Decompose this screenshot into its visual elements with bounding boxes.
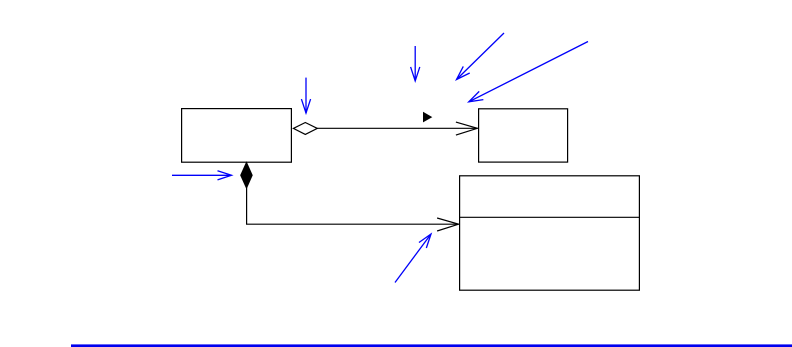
- class box 3 (large rectangle, two compartments): [460, 176, 640, 290]
- blue annotation arrow (short diagonal, upper middle): [457, 33, 505, 80]
- blue annotation arrow pointing right at composition diamond: [172, 174, 232, 176]
- class box 2 (right rectangle): [479, 109, 568, 162]
- composition link (elbow wire to class box 3): [247, 188, 459, 225]
- blue annotation arrow pointing down at aggregation diamond: [305, 78, 307, 114]
- association line (aggregation to class box 2): [317, 127, 477, 129]
- navigability triangle (filled, above line): [423, 112, 432, 123]
- composition diamond (filled): [241, 162, 253, 188]
- aggregation diamond (hollow): [293, 123, 317, 135]
- class box 1 (left rectangle): [182, 109, 292, 163]
- bottom horizontal blue rule: [71, 344, 792, 347]
- compartment divider of class box 3: [460, 216, 640, 218]
- blue annotation arrow (long diagonal to class box 2 corner): [469, 42, 588, 102]
- blue annotation arrow pointing down at navigability triangle: [414, 46, 416, 81]
- blue annotation arrow pointing up-right at link arrowhead: [395, 234, 431, 283]
